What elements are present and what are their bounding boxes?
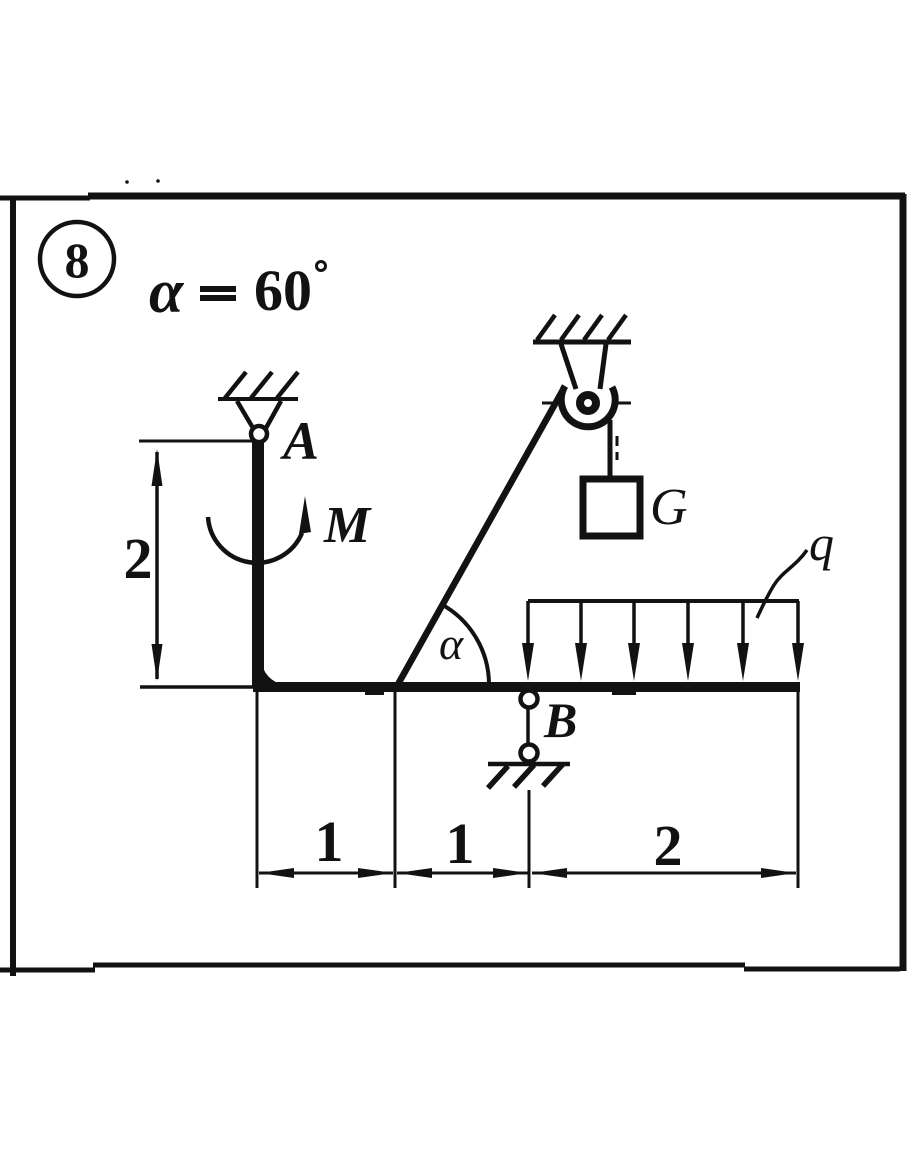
support B hatch line <box>488 762 570 767</box>
dimension extension line B <box>528 790 531 888</box>
moment M arc <box>208 517 302 563</box>
svg-text:1: 1 <box>315 809 344 874</box>
frame bottom line <box>0 965 900 970</box>
frame top line main <box>88 193 905 200</box>
label alpha = 60 deg <box>149 258 312 326</box>
frame left border <box>10 197 16 976</box>
load arrowheads <box>522 643 804 681</box>
svg-text:8: 8 <box>65 232 90 288</box>
vertical member <box>252 441 264 686</box>
diagonal rod <box>397 388 564 686</box>
support A hatch line <box>218 397 298 401</box>
ceiling hatch line <box>533 340 631 345</box>
pulley axle ticks <box>542 402 631 405</box>
beam <box>253 682 800 692</box>
ceiling hatch strokes <box>537 315 626 340</box>
svg-text:2: 2 <box>124 526 153 591</box>
specks above top border <box>125 180 129 184</box>
support A hatch strokes <box>225 372 298 398</box>
dimension 2 top reference line <box>139 440 253 443</box>
angle arc <box>441 604 489 684</box>
weight cable <box>608 420 613 478</box>
moment M arrowhead <box>299 496 311 534</box>
q leader line <box>757 550 807 618</box>
svg-text:B: B <box>543 692 577 748</box>
svg-text:q: q <box>809 515 834 571</box>
svg-text:G: G <box>650 479 688 536</box>
dimension extension line mid <box>394 692 397 888</box>
dimension extension line left <box>256 692 259 888</box>
beam left thin reference line <box>140 685 255 689</box>
dimension 2 vertical line <box>155 452 159 679</box>
support B lower circle <box>521 745 538 762</box>
bottom dimension line <box>259 872 796 875</box>
pulley wheel arc <box>561 386 615 427</box>
svg-text:2: 2 <box>654 813 683 878</box>
pulley hub <box>580 395 596 411</box>
dimension 2 up arrow <box>152 449 163 486</box>
support A triangle <box>237 401 281 428</box>
beam underside scan dashes <box>365 692 636 695</box>
dimension 2 down arrow <box>152 644 163 681</box>
svg-text:α: α <box>149 258 185 326</box>
cable dashes <box>616 436 619 460</box>
svg-text:α: α <box>439 618 464 669</box>
dim arrows segment 3 <box>532 868 567 878</box>
corner fillet <box>261 659 286 686</box>
svg-text:60: 60 <box>254 258 312 323</box>
variant number circle <box>40 222 114 296</box>
support B upper circle <box>521 691 538 708</box>
degree mark <box>317 262 326 271</box>
pulley clevis <box>561 344 606 389</box>
dim arrows segment 2 <box>397 868 432 878</box>
load arrow shafts <box>528 601 798 660</box>
support B hatch strokes <box>488 764 563 788</box>
frame right border <box>900 194 907 971</box>
dimension extension line right <box>797 692 800 888</box>
pin A circle <box>251 426 267 442</box>
dim arrows segment 1 <box>259 868 796 878</box>
svg-text:1: 1 <box>446 811 475 876</box>
svg-text:M: M <box>323 497 372 554</box>
frame top line thin left part <box>0 196 90 201</box>
weight G box <box>583 479 640 536</box>
distributed load top line <box>528 599 799 603</box>
svg-text:A: A <box>280 411 319 471</box>
support B link <box>526 708 530 745</box>
